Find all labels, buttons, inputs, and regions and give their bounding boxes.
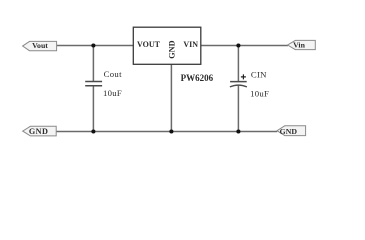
capacitor Cout plates <box>85 81 102 83</box>
regulator IC U1 PW6206 body <box>133 27 201 64</box>
capacitor CIN polarized plates <box>230 81 247 83</box>
svg-text:Vout: Vout <box>32 41 48 50</box>
node: junction ground/CIN <box>236 129 240 133</box>
node: junction Vin/CIN <box>236 43 240 47</box>
svg-text:PW6206: PW6206 <box>181 73 214 83</box>
wire: CIN bottom branch <box>237 85 239 131</box>
svg-text:Vin: Vin <box>293 41 306 50</box>
wire: Cout top branch <box>92 46 94 82</box>
net flag Vin <box>288 40 316 49</box>
net flag GND (bottom right) <box>277 126 306 136</box>
svg-text:10uF: 10uF <box>250 88 269 98</box>
svg-text:VOUT: VOUT <box>137 40 161 49</box>
polarity plus sign <box>241 74 246 79</box>
node: junction Vout/Cout <box>91 43 95 47</box>
svg-text:GND: GND <box>280 127 298 136</box>
wire: Cout bottom branch <box>92 86 94 132</box>
wire: regulator GND pin to ground rail <box>170 64 172 131</box>
svg-text:GND: GND <box>29 127 48 136</box>
svg-text:10uF: 10uF <box>103 88 122 98</box>
node: junction ground/Cout <box>91 129 95 133</box>
svg-text:Cout: Cout <box>104 69 123 79</box>
wire: Vout flag to regulator VOUT pin <box>56 45 133 47</box>
wire: bottom ground rail <box>56 131 277 133</box>
wire: regulator VIN pin to Vin flag <box>201 45 288 47</box>
svg-text:VIN: VIN <box>183 40 198 49</box>
svg-text:CIN: CIN <box>251 70 267 80</box>
svg-text:GND: GND <box>167 40 176 58</box>
node: junction ground/GND pin <box>169 129 173 133</box>
net flag Vout <box>23 41 57 51</box>
wire: CIN top branch <box>237 46 239 82</box>
net flag GND (bottom left) <box>23 126 57 136</box>
